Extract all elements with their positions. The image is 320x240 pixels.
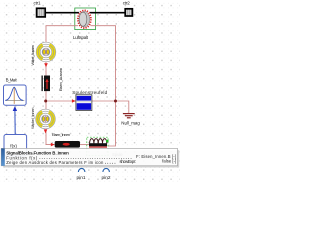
svg-text:Wickel_Innen: Wickel_Innen bbox=[30, 108, 35, 130]
svg-text:false [-]: false [-] bbox=[162, 159, 176, 164]
svg-text:showExpr:: showExpr: bbox=[120, 159, 137, 164]
svg-text:Spulenstreufeld: Spulenstreufeld bbox=[72, 90, 107, 95]
svg-text:pin1: pin1 bbox=[77, 175, 86, 181]
svg-text:Eisen_Aussen: Eisen_Aussen bbox=[58, 68, 63, 91]
svg-text:Eisen_Innen: Eisen_Innen bbox=[52, 132, 70, 137]
svg-text:B_Max: B_Max bbox=[6, 78, 18, 83]
svg-text:ctr1: ctr1 bbox=[34, 1, 41, 6]
svg-text:Luftspalt: Luftspalt bbox=[73, 35, 89, 40]
svg-text:Null_mag: Null_mag bbox=[121, 120, 140, 125]
svg-text:Wickel_Aussen: Wickel_Aussen bbox=[30, 45, 35, 66]
svg-text:pin2: pin2 bbox=[102, 175, 111, 181]
svg-text:f(x): f(x) bbox=[10, 143, 17, 148]
svg-text:ctr2: ctr2 bbox=[123, 1, 130, 6]
svg-text:Zeige den Ausdruck des Paramet: Zeige den Ausdruck des Parameters F im i… bbox=[6, 160, 104, 165]
